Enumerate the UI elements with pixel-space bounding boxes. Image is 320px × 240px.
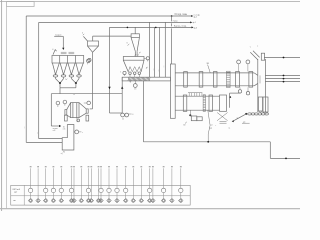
collector bus step down	[269, 142, 271, 159]
svg-text:Сырьё: Сырьё	[55, 34, 62, 36]
wire drop x154.5	[153, 27, 155, 77]
svg-text:кл: кл	[211, 125, 213, 127]
instrument table frame	[11, 185, 190, 205]
feed line with arrow into bank	[62, 36, 64, 50]
hopper BN2 inner W funnels	[128, 67, 141, 72]
inlet chute mark left of bank	[52, 49, 56, 55]
svg-text:щит: щит	[14, 192, 17, 194]
svg-text:ф-1: ф-1	[193, 21, 196, 24]
kiln exhaust riser x171.5 with hops	[171, 16, 173, 64]
instrument column 13 diamond	[107, 166, 112, 203]
instrument column 6 diamond	[69, 166, 74, 203]
wire drop x149.5	[149, 22, 151, 77]
pump P1 circles	[121, 113, 134, 120]
wire A horizontal into chute	[26, 141, 62, 143]
kiln feed housing	[170, 64, 175, 118]
svg-text:15: 15	[73, 94, 75, 96]
instrument column 7 diamond	[72, 166, 77, 203]
mill enclosure top wire y93.7	[51, 94, 122, 96]
instrument table row labels	[13, 188, 21, 202]
under-kiln enclosure corner	[230, 93, 241, 108]
instrument column 1 diamond	[28, 166, 33, 203]
instrument column 9 diamond	[86, 166, 91, 203]
kiln tyre 5	[249, 72, 253, 88]
hopper bank BN2 top box	[123, 57, 144, 61]
svg-text:2: 2	[146, 67, 147, 69]
cooler underflow boxes	[183, 110, 202, 126]
wire B horizontal into chute	[39, 138, 63, 140]
kiln girth gear	[227, 71, 231, 87]
svg-text:Аэрац. возд.: Аэрац. возд.	[174, 24, 187, 27]
cooler tyre 1	[183, 95, 187, 111]
hopper BN2 discharge feeder circles	[129, 72, 141, 77]
clinker outlet slant wire	[232, 114, 247, 122]
hopper BN2 top label	[135, 54, 139, 56]
cooler drum	[175, 96, 219, 110]
svg-text:КИП и А: КИП и А	[13, 188, 21, 191]
cooler discharge box	[220, 95, 227, 111]
chute indicator circle	[75, 130, 83, 134]
mill trunnion left	[65, 110, 67, 115]
title tab	[7, 2, 34, 7]
svg-text:ф-3: ф-3	[194, 26, 197, 29]
wire B vertical (x38.7)	[37, 22, 39, 138]
svg-text:Отход. газы: Отход. газы	[175, 14, 188, 16]
collector bus wire y141.8	[143, 141, 270, 143]
instrument column 3 diamond	[43, 166, 48, 203]
export wire right 1	[265, 75, 300, 77]
cooler inlet ticks	[188, 93, 202, 97]
instrument column 8 diamond	[79, 166, 84, 203]
ball mill M1 drum	[67, 103, 87, 118]
kiln drive indicator circle 2	[246, 60, 250, 71]
instrument column 20 diamond	[161, 166, 166, 203]
kiln drive indicator circle 1	[237, 60, 241, 71]
svg-text:30: 30	[183, 124, 185, 126]
wire conveyor drop x143.4	[142, 81, 144, 142]
instrument column 2 diamond	[36, 166, 41, 203]
BN2 left level indicator	[120, 71, 126, 76]
clinker drag chain	[245, 113, 268, 115]
svg-text:6: 6	[127, 43, 128, 45]
svg-text:Газы: Газы	[173, 20, 178, 22]
wire export line 3 (aspiration)	[110, 24, 198, 29]
chute bottom label	[63, 152, 65, 154]
hopper bank BN1 top bins	[52, 56, 84, 64]
mill pedestal right	[86, 115, 89, 121]
mill pedestal left	[65, 115, 68, 121]
cooler discharge wire to bus	[208, 110, 217, 142]
inner frame line	[6, 7, 8, 209]
mill enclosure left wire	[50, 94, 52, 126]
cooler girth gear	[203, 95, 205, 112]
conveyor drive symbol	[129, 81, 137, 90]
hopper BN2 funnel walls	[123, 60, 144, 72]
svg-text:5: 5	[82, 33, 83, 35]
cyclone C1 inlet slant	[82, 33, 88, 41]
bus labels	[209, 127, 230, 129]
svg-text:1: 1	[120, 72, 121, 74]
hood explosion flap	[261, 53, 264, 60]
wire drop x159.5	[158, 27, 160, 77]
kiln hood body	[258, 59, 266, 112]
instrument column 4 diamond	[51, 166, 56, 203]
svg-text:11: 11	[122, 118, 124, 120]
cooler crusher X	[217, 113, 228, 124]
svg-text:га: га	[229, 127, 231, 129]
export wire right 3	[265, 81, 300, 83]
svg-text:Л2: Л2	[63, 152, 65, 154]
mill motor indicator circle	[63, 100, 67, 105]
wire A vertical (x26)	[25, 16, 27, 142]
hood top slant duct	[250, 46, 260, 60]
cyclone C1 top gas stub	[92, 36, 94, 41]
bank BN1 level indicator circle	[87, 59, 90, 64]
instrument column 21 diamond	[170, 166, 175, 203]
BN2 right label	[146, 67, 148, 69]
instrument column 17 diamond	[139, 166, 144, 203]
mill trunnion right	[86, 109, 88, 113]
under-kiln bearing circle 2	[246, 87, 249, 95]
label near chute bottom	[61, 153, 63, 155]
cyclone C2 label marks	[127, 43, 141, 54]
instrument column 12 diamond	[99, 166, 104, 203]
kiln tyre 2	[199, 72, 203, 88]
kiln tyre 3	[213, 72, 217, 88]
kiln tyre 4	[236, 72, 240, 88]
level marks above bank	[61, 52, 74, 54]
gas duct wire y36	[93, 35, 131, 37]
cyclone C1 dust return drop wire	[90, 52, 93, 109]
mill outlet chute box	[62, 125, 74, 151]
svg-text:ф-2: ф-2	[194, 16, 197, 19]
svg-text:п.6: п.6	[63, 128, 65, 130]
BN2 top-right indicator circle	[144, 57, 149, 62]
label under middle feeders	[65, 79, 67, 80]
mill tag balloon	[76, 118, 79, 123]
instrument column 11 diamond	[96, 166, 101, 203]
pump suction U wire	[110, 77, 124, 113]
instrument column 14 diamond	[115, 166, 120, 203]
wire export line 1 (waste gases)	[26, 13, 200, 18]
mill bearing indicator circle right	[84, 101, 91, 105]
cyclone C1	[88, 41, 99, 52]
cooler tyre 2	[209, 95, 213, 111]
cyclone C1 indicator circle	[88, 58, 91, 63]
instrument column 22 diamond	[179, 166, 184, 203]
duct wire x109.5 vertical	[108, 27, 110, 113]
mill bearing indicator circle left	[56, 101, 60, 107]
export wire top right (hood gas)	[264, 57, 300, 59]
wire bank to mill line	[59, 88, 61, 94]
kiln nose cone	[254, 73, 258, 86]
screw conveyor hatch	[128, 78, 150, 81]
collector bus wire y158.4	[270, 158, 300, 160]
mill discharge stub with arrow	[51, 125, 61, 132]
instrument column 16 diamond	[131, 166, 136, 203]
instrument column 5 diamond	[59, 166, 64, 203]
clinker label stub	[242, 121, 250, 123]
instrument column 19 diamond	[151, 166, 156, 203]
instrument column 18 diamond	[147, 166, 152, 203]
svg-text:п.8: п.8	[53, 130, 55, 132]
hood clinker vessels	[258, 97, 268, 113]
cyclone C2	[131, 34, 139, 57]
wire export line 2	[39, 20, 196, 24]
instrument column 10 diamond	[89, 166, 94, 203]
kiln label 38	[206, 63, 210, 73]
svg-text:13: 13	[134, 88, 136, 90]
kiln tyre 1	[184, 72, 188, 88]
export wire right 2	[265, 78, 300, 80]
rotary kiln drum	[175, 73, 254, 86]
feed label stub	[54, 34, 63, 36]
screw conveyor trough	[122, 77, 170, 81]
hopper BN1 discharge feeders	[53, 75, 81, 77]
svg-text:9: 9	[77, 120, 78, 122]
wire drop x165.3	[164, 22, 166, 77]
under-kiln bearing circle 1	[238, 87, 241, 93]
cyclone C2 feed wire from line3	[134, 27, 136, 33]
hopper BN1 funnels	[52, 63, 83, 75]
BN1 collect wires to junctions	[56, 77, 80, 88]
instrument column 15 diamond	[123, 166, 128, 203]
svg-text:-1: -1	[132, 114, 134, 116]
svg-text:авт: авт	[13, 200, 16, 202]
